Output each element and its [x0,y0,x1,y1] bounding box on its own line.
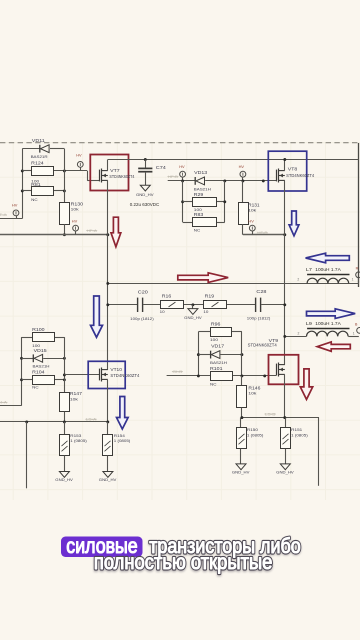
wire R81 row [22,190,31,192]
wire R29 row [183,201,193,203]
svg-text:100uH 1.7A: 100uH 1.7A [315,267,341,272]
svg-text:R100: R100 [32,327,45,332]
junction LS-A VT10 source [106,420,109,423]
transistor VT9 mosfet symbol [277,363,285,377]
junction top rail C74 [144,158,147,161]
power port HV left top-right cluster [180,171,186,177]
junction left rail VD15 [20,357,23,360]
svg-text:10: 10 [160,309,166,314]
svg-text:VT10: VT10 [110,367,122,372]
wire HF-B horizontal [243,234,285,236]
wire C74 top stub [145,160,147,168]
svg-text:1 (0805): 1 (0805) [70,439,87,443]
wire R146 to LS-B [241,408,243,418]
junction right rail R104 [63,378,66,381]
wire VT9 gate row [167,375,210,377]
wire R147 to LS-A [64,412,66,422]
svg-text:VD17: VD17 [211,343,225,348]
resistor R83 [193,218,217,227]
svg-text:GND_HV: GND_HV [55,477,73,482]
arrow blue down left-mid [91,296,103,337]
wire R151 to ground [285,449,287,464]
wire R131 top stub [242,181,244,203]
wire GND stub node B [192,305,194,309]
svg-text:R104: R104 [32,370,45,375]
inductor L9 [307,331,349,336]
transistor VT7 highlight box [90,155,128,191]
wire VD15 row [22,358,34,360]
resistor R151 [281,428,291,449]
svg-text:VD11: VD11 [32,138,46,143]
wire right rail top cluster [64,149,66,203]
wire R154 to ground [107,455,109,471]
svg-text:10k: 10k [248,391,256,396]
junction gate row left rail [181,179,184,182]
net label GI-A left edge [0,401,8,405]
resistor R104 [33,376,55,385]
wire left rail top-right cluster [182,181,184,222]
resistor R81 [32,187,54,196]
wire R130 to HF-A rail [64,224,66,235]
wire L7 label underline [307,274,349,276]
junction gate row R131 [241,179,244,182]
wire node A horizontal (half-bridge left output) [108,283,359,285]
transistor VT10 mosfet symbol [100,368,108,382]
svg-text:GND_HV: GND_HV [99,477,117,482]
resistor R130 [60,203,70,225]
resistor R100 [33,333,55,342]
svg-text:полностью открытые: полностью открытые [94,551,273,574]
junction LS-B R146/R150 [240,416,243,419]
junction R130 bottom [63,233,66,236]
power port HV at gate wire VT7 [77,162,83,168]
resistor R147 [60,393,70,412]
junction right rail R124 [63,169,66,172]
net label LS-B [264,412,276,416]
power port at L9 right edge [357,328,360,334]
wire L9 right stub [348,336,359,338]
wire R104 row [22,379,33,381]
wire L9 label underline [307,328,349,330]
ground GND_HV R153 [59,472,69,478]
power port HV left edge [13,210,19,216]
net label HF-B at wire start [167,175,178,179]
arrow blue right above L9 [307,309,356,319]
wire R153 top stub [64,422,66,434]
svg-text:R153: R153 [70,433,82,438]
wire R146 top stub [241,376,243,385]
ground GND_HV R151 [280,464,290,470]
wire HF-A horizontal [0,234,108,236]
resistor R101 [211,372,233,381]
svg-text:VD13: VD13 [194,170,208,175]
resistor R153 [60,435,70,456]
transistor VT9 highlight box [269,355,299,385]
resistor R146 [237,386,247,408]
junction right rail VD15 [63,357,66,360]
wire R154 top stub [107,422,109,434]
diode VD13 [195,177,204,185]
power port HV on HF-A wire [73,225,79,231]
svg-text:L9: L9 [306,321,313,326]
svg-text:10k: 10k [70,396,78,401]
resistor R96 [211,328,232,337]
power port HV on HF-B wire [249,225,255,231]
svg-text:R83: R83 [194,212,204,217]
svg-text:R124: R124 [31,161,44,166]
resistor R131 [239,203,249,225]
wire C74 bottom stub [145,173,147,186]
svg-text:2: 2 [298,331,300,335]
junction right rail R29 row [223,200,226,203]
svg-text:VD15: VD15 [34,348,48,353]
inductor L7 [307,278,349,283]
dashed sheet boundary [0,142,360,144]
transistor VT7 mosfet symbol [100,169,108,183]
transistor VT8 highlight box [268,151,306,191]
power port HV right top-right cluster [240,171,246,177]
svg-text:R29: R29 [194,192,204,197]
resistor R124 [32,167,54,176]
svg-text:10k: 10k [248,208,256,213]
svg-text:VT8: VT8 [288,167,298,172]
svg-text:10: 10 [203,309,209,314]
junction left rail VD17 [197,353,200,356]
junction gate row near VT8 [262,179,265,182]
svg-text:NC: NC [32,385,39,390]
junction top rail VT8 drain [283,158,286,161]
svg-text:100uH 1.7A: 100uH 1.7A [315,321,341,326]
svg-text:GND_HV: GND_HV [136,192,154,197]
junction right rail R81 [63,189,66,192]
wire R124 row [22,170,31,172]
svg-text:R19: R19 [205,293,215,298]
resistor R150 [237,428,247,449]
capacitor C20 [138,298,143,312]
junction LS-A R147/R153 [63,420,66,423]
wire R83 row [183,222,193,224]
svg-text:GND_HV: GND_HV [232,470,250,475]
junction gate row right rail [240,374,243,377]
transistor VT10 highlight box [88,361,125,388]
svg-text:C28: C28 [256,289,267,294]
svg-text:NC: NC [194,228,201,233]
wire left rail HF-A [22,149,24,219]
svg-text:BAS21H: BAS21H [194,186,211,191]
svg-text:2: 2 [297,277,299,281]
net label HF-B [257,231,268,235]
wire VT8 drain [284,160,286,171]
svg-text:C20: C20 [138,289,149,294]
net label LS-A [85,418,97,422]
junction left rail R29 row [181,200,184,203]
svg-text:1 (0805): 1 (0805) [247,433,264,437]
wire R153 to ground [64,455,66,471]
wire VT8 gate row [168,180,195,182]
wire VD17 row [198,354,210,356]
wire L9 left stub [285,336,307,338]
svg-text:HV: HV [179,164,185,169]
arrow red left below L9 [317,342,350,351]
arrow blue down bottom-left [117,397,129,430]
wire VT7 drain [107,160,109,171]
resistor R16 [161,301,184,309]
wire right rail bottom-left cluster [64,337,66,393]
svg-text:100: 100 [210,337,219,342]
junction gate row near VT9 [263,374,266,377]
capacitor C74 [138,168,152,171]
wire R96 row [198,331,210,333]
wire VT7 source to VT10 drain [107,180,109,370]
junction node A at VT7 leg [106,282,109,285]
diode VD11 [40,145,49,153]
wire R151 top stub [285,418,287,428]
junction LS-A stub [25,420,28,423]
svg-text:1 (0805): 1 (0805) [114,439,131,443]
net label HF-A left edge [0,213,7,217]
resistor R19 [204,301,227,309]
ground GND_HV R154 [103,472,113,478]
svg-text:R96: R96 [211,321,221,326]
svg-text:STD4NK60ZT4: STD4NK60ZT4 [286,173,315,178]
power port at L7 right edge [356,272,360,278]
wire LS-B horizontal [242,417,319,419]
net label GI-B [172,370,183,374]
ground GND_HV R150 [236,464,246,470]
svg-text:R101: R101 [210,366,223,371]
junction right rail VD17 [240,353,243,356]
junction left rail R124 [21,169,24,172]
svg-text:R154: R154 [114,433,126,438]
svg-text:1: 1 [353,331,355,335]
svg-text:C74: C74 [156,165,167,170]
svg-text:GND_HV: GND_HV [184,315,202,320]
junction left rail R81 [21,189,24,192]
svg-text:STD4NK60ZT4: STD4NK60ZT4 [109,174,135,179]
svg-text:BAS21R: BAS21R [31,154,48,159]
svg-text:HV: HV [72,218,78,223]
wire R150 to ground [240,449,242,464]
junction node B at VT7 leg [106,303,109,306]
junction gate row left rail [197,374,200,377]
wire left rail bottom-left cluster [21,337,23,406]
junction node B ground tap [191,303,194,306]
svg-text:0.22u 630VDC: 0.22u 630VDC [130,202,160,207]
wire top rail [108,159,359,161]
svg-text:100p (1812): 100p (1812) [130,316,154,321]
svg-text:HV: HV [239,164,245,169]
svg-text:NC: NC [210,382,217,387]
arrow red down below VT9 [300,369,312,400]
wire node B horizontal (snubber row) [108,304,137,306]
svg-text:NC: NC [31,197,38,202]
svg-text:L7: L7 [306,267,313,272]
svg-text:1: 1 [352,277,354,281]
svg-text:BAS21H: BAS21H [33,363,50,368]
ground GND_HV at node B [188,309,198,315]
junction right rail gate tap VT10 [63,373,66,376]
wire R150 top stub [240,418,242,428]
wire LS-B down right [318,418,320,486]
svg-text:HV: HV [12,203,18,208]
wire left rail bottom-right cluster [198,332,200,376]
diode VD17 [211,351,220,359]
resistor R29 [193,198,217,207]
wire right rail top-right cluster [224,181,226,222]
wire VT8 source to VT9 drain [284,180,286,365]
arrow red right mid [178,273,228,283]
svg-text:VT7: VT7 [110,168,120,173]
resistor R154 [103,435,113,456]
wire VT10 source [107,380,109,422]
wire right rail bottom-right cluster [241,332,243,376]
wire LS-A down stub [26,422,28,488]
wire VD11 row [22,148,39,150]
svg-text:HV: HV [76,153,82,158]
wire gate step VT7 [87,171,89,181]
wire right-edge vertical [358,143,360,287]
subtitle shadow layer [94,536,301,575]
svg-text:100p (1812): 100p (1812) [247,316,271,321]
svg-text:R: R [356,266,359,270]
svg-text:R150: R150 [247,427,259,432]
svg-text:HV: HV [248,218,254,223]
transistor VT8 mosfet symbol [277,169,285,183]
svg-text:10k: 10k [71,207,79,212]
junction left rail R104 [20,378,23,381]
junction L9 tap on VT8 leg [283,335,286,338]
wire R100 row [22,337,33,339]
wire VT9 source [284,375,286,418]
junction LS-B VT9 source [283,416,286,419]
svg-text:STD4NK60ZT4: STD4NK60ZT4 [248,342,278,347]
junction node B at VT8 leg [283,303,286,306]
arrow red down below VT7 [111,217,121,247]
ground GND_HV at C74 [140,185,150,191]
arrow blue down below VT8 [289,211,299,236]
svg-text:R16: R16 [162,293,172,298]
wire VT10 gate [64,374,99,376]
junction gate row R29 rail [223,179,226,182]
junction HF-B / VT8 source [283,233,286,236]
diode VD15 [33,354,42,362]
net label HF-A [86,229,97,233]
svg-text:GND_HV: GND_HV [276,470,294,475]
svg-text:1 (0805): 1 (0805) [291,433,308,437]
svg-text:STD4NK60ZT4: STD4NK60ZT4 [110,373,140,378]
junction HF-A / VT7 source [106,233,109,236]
svg-text:R81: R81 [31,182,41,187]
capacitor C28 [256,298,261,312]
wire R131 to HF-B rail [242,224,244,235]
arrow blue left above L7 [306,253,350,263]
svg-text:R151: R151 [291,427,303,432]
svg-text:BAS21H: BAS21H [210,360,227,365]
wire LS-A horizontal [0,421,108,423]
subtitle highlight box [61,537,143,558]
